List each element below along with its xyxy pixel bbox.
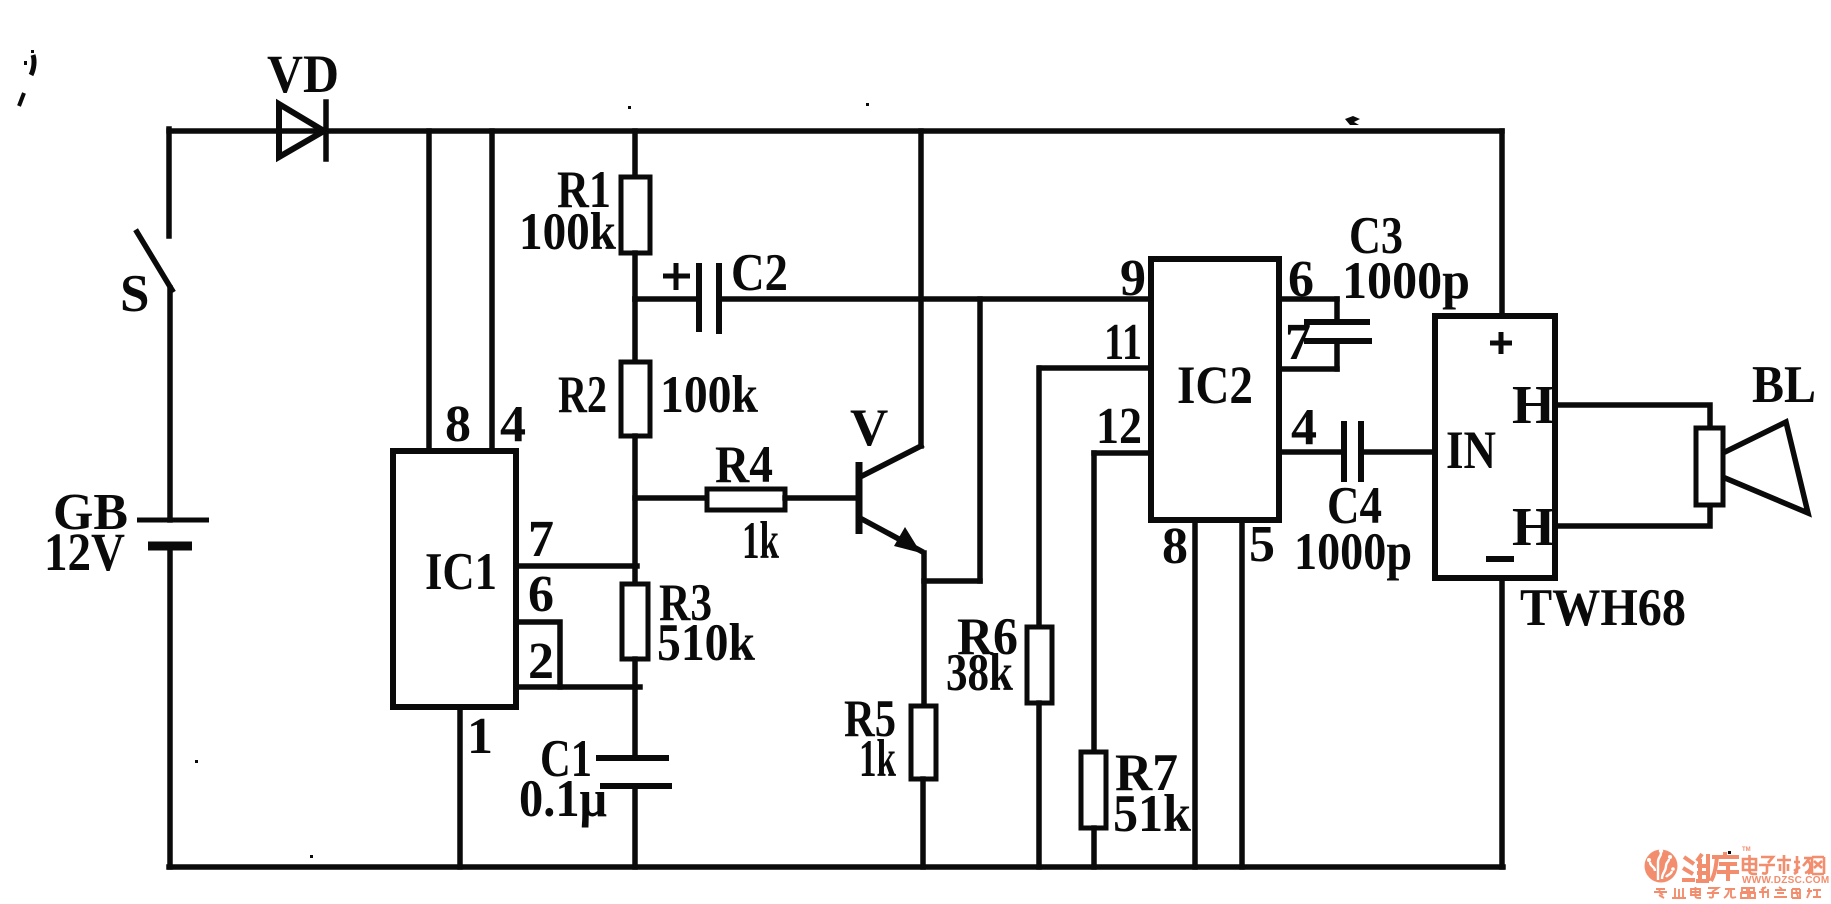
watermark char 场 [1794,856,1811,874]
resistor R6 [946,368,1052,867]
svg-text:9: 9 [1120,250,1146,307]
scan dot 3 [195,760,198,763]
scan speck 2 [19,93,24,106]
resistor R5 [844,690,936,867]
svg-text:BL: BL [1752,356,1816,414]
wire TWH68 to bottom rail [1499,578,1505,867]
svg-text:1k: 1k [859,730,896,788]
svg-text:TWH68: TWH68 [1520,579,1686,637]
wire top rail [169,128,1502,134]
svg-text:12V: 12V [44,522,125,582]
svg-text:1k: 1k [742,512,779,570]
svg-text:TM: TM [1742,847,1751,853]
scan dot wm [1728,851,1731,854]
svg-text:H: H [1512,374,1555,435]
watermark slogan row [1654,887,1821,898]
wire collector to top rail [918,131,924,446]
resistor R3 [622,574,755,758]
wire IC2 pin 11 [1040,365,1151,371]
resistor R4 [635,436,858,570]
svg-text:5: 5 [1249,516,1275,573]
svg-text:4: 4 [1291,399,1317,456]
svg-text:6: 6 [528,566,554,623]
capacitor C4 [1294,421,1435,581]
svg-text:11: 11 [1104,314,1142,371]
svg-text:4: 4 [500,396,526,453]
transistor V [850,399,921,553]
wire IC1 pin 7 [516,563,637,569]
wire IC2 pin 5 [1239,520,1245,867]
svg-text:IC2: IC2 [1177,355,1253,415]
svg-text:1: 1 [467,708,493,765]
wire IC2 pin 4 [1279,449,1342,455]
svg-text:12: 12 [1096,398,1142,455]
diode VD [267,44,339,159]
scan dot 4 [310,855,313,858]
svg-text:8: 8 [445,396,471,453]
wire C2 to IC2 pin 9 [721,296,1151,302]
wire IC2 pin 7 [1279,366,1337,372]
wire switch to battery [167,288,173,520]
svg-text:0.1μ: 0.1μ [519,770,607,828]
svg-text:7: 7 [1285,314,1311,371]
wire TWH68 H lower to speaker [1555,505,1710,526]
wire emitter down [921,553,927,706]
svg-text:100k: 100k [519,203,616,261]
speaker BL [1696,356,1816,513]
wire top rail to TWH68 [1499,131,1505,316]
wire IC2 pin 8 [1192,520,1198,867]
svg-text:6: 6 [1288,251,1314,308]
watermark char 电 [1743,855,1757,874]
watermark char 网 [1812,857,1824,874]
scan speck 3 [1345,116,1360,125]
scan speck 1 [31,55,34,75]
wire battery to bottom rail [167,546,173,867]
wire IC1 pin 2 [516,684,640,690]
resistor R1 [519,131,650,299]
wire C2 line down to emitter [977,299,983,581]
svg-text:100k: 100k [660,366,758,424]
wire TWH68 H upper to speaker [1555,405,1710,428]
scan dot 1 [628,106,631,109]
svg-text:38k: 38k [946,644,1013,702]
svg-text:R4: R4 [715,436,773,494]
switch S [120,232,172,323]
svg-text:7: 7 [528,511,554,568]
svg-text:1000p: 1000p [1294,523,1412,581]
svg-text:IN: IN [1446,420,1496,480]
svg-text:IC1: IC1 [425,543,497,601]
resistor R2 [558,299,758,584]
watermark char 市 [1777,855,1791,874]
svg-text:51k: 51k [1113,785,1191,843]
svg-text:H: H [1512,496,1555,557]
svg-text:VD: VD [267,44,339,104]
op-amp IC2 [1151,259,1279,520]
wire IC1 pin 4 [489,131,495,451]
svg-text:8: 8 [1162,518,1188,575]
svg-text:2: 2 [528,633,554,690]
resistor R7 [1081,453,1191,867]
svg-text:V: V [850,399,888,457]
svg-text:510k: 510k [657,614,755,672]
capacitor C1 [519,730,672,867]
capacitor C3 [1304,207,1470,369]
svg-text:S: S [120,265,149,323]
op-amp IC1 [393,451,516,707]
wire IC2 pin 12 [1094,450,1151,456]
watermark char 库 [1711,852,1739,881]
watermark char 维 [1682,854,1709,881]
svg-text:R2: R2 [558,366,607,424]
wire IC1 pin 6 step [516,622,560,687]
battery GB 12V [44,484,209,582]
svg-text:1000p: 1000p [1342,252,1470,310]
amplifier TWH68 [1435,316,1686,637]
svg-text:C2: C2 [731,244,788,302]
capacitor C2 [635,244,788,334]
wire IC1 pin 1 [457,707,463,867]
watermark char 子 [1759,857,1775,874]
svg-text:WWW.DZSC.COM: WWW.DZSC.COM [1742,875,1829,886]
wire IC1 pin 8 [426,131,432,451]
wire IC2 pin 6 [1279,296,1337,302]
watermark logo circle [1645,849,1732,883]
wire emitter junction [924,578,980,584]
wire bottom rail [169,864,1503,870]
wire left rail upper [166,129,172,236]
scan dot 2 [866,103,869,106]
